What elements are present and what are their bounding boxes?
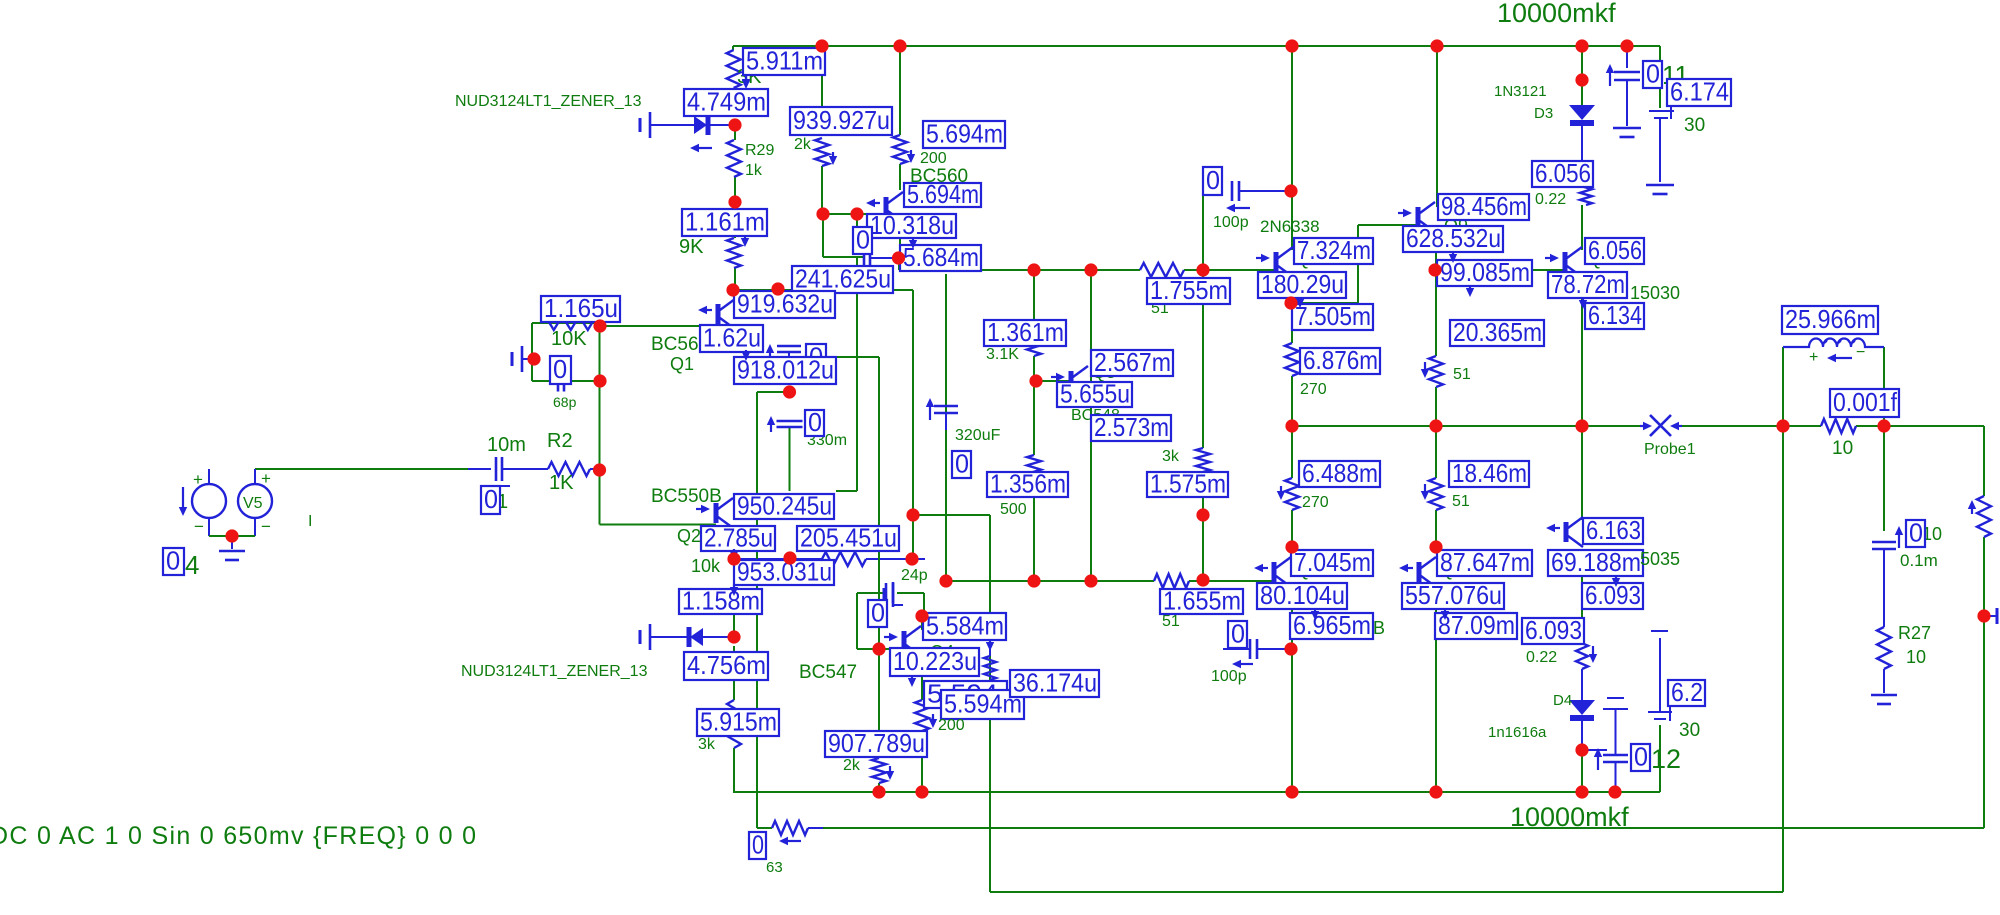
wire VAS output row y270: [899, 269, 1140, 271]
value box 6.093 right: [1582, 583, 1643, 609]
wire node913 to x990: [913, 514, 990, 516]
svg-text:0.1m: 0.1m: [1900, 551, 1938, 570]
svg-text:NUD3124LT1_ZENER_13: NUD3124LT1_ZENER_13: [455, 93, 642, 110]
svg-text:0: 0: [808, 407, 822, 437]
value box 5.694m upper: [923, 121, 1005, 148]
value box 1.161m: [682, 209, 767, 236]
wire battery 6.2 bottom to rail corner: [1659, 725, 1661, 792]
wire x857 Miller link vertical: [856, 258, 858, 491]
resistor R 10k feedback: [822, 552, 866, 566]
wire Q7 emitter node row: [1292, 302, 1358, 304]
battery V+ 30: [1649, 110, 1674, 112]
arrow D1 current: [699, 147, 712, 149]
svg-text:+: +: [261, 469, 271, 488]
pointer 5.911m: [745, 76, 747, 79]
value box 180.29u: [1258, 272, 1346, 298]
svg-text:10K: 10K: [551, 328, 587, 350]
svg-text:20.365m: 20.365m: [1453, 317, 1542, 347]
value box 0 follower: [806, 344, 826, 371]
node D2: [727, 630, 740, 643]
svg-text:5.911m: 5.911m: [746, 45, 823, 75]
svg-text:6.965m: 6.965m: [1293, 610, 1371, 640]
wire x1292 to bottom rail: [1291, 649, 1293, 792]
svg-text:1.158m: 1.158m: [682, 585, 760, 615]
wire Q1 collector node row: [733, 289, 913, 291]
svg-text:5.655u: 5.655u: [1060, 378, 1130, 408]
svg-text:1.165u: 1.165u: [544, 293, 618, 323]
transistor Q2 BC550B: [714, 503, 719, 523]
resistor R 10 output: [1821, 419, 1856, 433]
svg-text:2N6338: 2N6338: [1260, 217, 1320, 236]
svg-text:63: 63: [766, 859, 783, 876]
capacitor C11 polarized top: [1609, 73, 1611, 86]
svg-text:0: 0: [166, 545, 180, 575]
node FB 757: [783, 551, 796, 564]
svg-text:180.29u: 180.29u: [1261, 269, 1344, 299]
node Q1 emitter cap: [783, 385, 796, 398]
pointer 557.076u: [1444, 609, 1446, 611]
svg-text:98.456m: 98.456m: [1441, 191, 1527, 221]
node bottom rail x1436: [1429, 785, 1442, 798]
wire node to R9K: [734, 202, 736, 238]
svg-text:0: 0: [856, 224, 870, 254]
wire 0.22a to Q11: [1581, 205, 1583, 250]
node x1436 y547: [1429, 540, 1442, 553]
wire Q7 collector link vertical: [1357, 225, 1359, 303]
wire zobel cap to R27: [1883, 559, 1885, 627]
pin right edge: [1988, 615, 1997, 617]
svg-text:2.785u: 2.785u: [704, 522, 773, 552]
wire rail to Q10 region: [1581, 426, 1583, 520]
svg-text:15030: 15030: [1630, 283, 1680, 303]
value box 0 cap12: [1631, 744, 1650, 771]
node 10K right: [593, 319, 606, 332]
pointer 1.161m: [744, 236, 746, 238]
svg-text:69.188m: 69.188m: [1551, 547, 1641, 577]
svg-text:87.647m: 87.647m: [1440, 547, 1530, 577]
probe1 output: [1640, 425, 1643, 427]
svg-text:12: 12: [1651, 744, 1681, 774]
value box 0.001f: [1830, 389, 1899, 417]
zener diode D2: [639, 630, 642, 644]
wire Q7 base stub: [1258, 269, 1276, 271]
wire Q4 collector: [921, 616, 923, 630]
wire 2k bottom to node: [821, 166, 823, 214]
svg-text:1n1616a: 1n1616a: [1488, 724, 1547, 741]
wire C68p bottom: [532, 380, 600, 382]
wire top supply rail: [733, 45, 1660, 47]
voltage source I1 current arrow: [182, 487, 184, 507]
wire x1436 to R51a: [1435, 270, 1437, 356]
value box 99.085m: [1437, 260, 1532, 286]
voltage source V5 circle: [238, 484, 272, 518]
wire R10K top: [532, 322, 600, 324]
svg-text:270: 270: [1300, 381, 1327, 398]
wire x879 driver column: [878, 357, 880, 649]
node out rail x1884: [1877, 419, 1890, 432]
wire right edge vertical upper: [1983, 426, 1985, 496]
pointer 180.29u: [1299, 297, 1301, 299]
value box 0 68p: [550, 356, 571, 384]
svg-text:51: 51: [1162, 613, 1180, 630]
wire zener D2 node down: [733, 646, 735, 700]
capacitor C 330m: [770, 425, 772, 432]
wire x1884 zobel column: [1883, 426, 1885, 531]
svg-text:7.505m: 7.505m: [1295, 301, 1371, 331]
node Q9 emitter: [1428, 263, 1441, 276]
node top rail / x1437: [1430, 39, 1443, 52]
battery 6.2 plates: [1648, 711, 1672, 713]
resistor R 270 upper: [1285, 343, 1299, 376]
wire 0.22b to D4: [1581, 669, 1583, 702]
svg-text:10: 10: [1832, 438, 1853, 459]
wire x1203 column down: [1202, 270, 1204, 448]
svg-text:200: 200: [920, 150, 947, 167]
value box 6.056 lower: [1585, 238, 1644, 264]
svg-text:1.655m: 1.655m: [1163, 585, 1241, 615]
value box 18.46m: [1449, 461, 1529, 487]
wire R9K to Q1 collector node: [734, 268, 736, 290]
wire Q11 base row: [1532, 269, 1565, 271]
wire D4 node to bottom rail: [1581, 750, 1583, 792]
wire VAS node vertical x913: [912, 290, 914, 515]
wire Q1 emitter to follower cap node: [757, 391, 789, 393]
node FB right: [905, 552, 918, 565]
resistor R 3.1K: [1027, 330, 1041, 356]
wire x734 to zener D2: [733, 559, 735, 637]
pointer 918.012u: [745, 350, 747, 352]
node Q1 collector: [726, 283, 739, 296]
svg-text:10m: 10m: [487, 434, 526, 456]
wire Miller cap to VAS collector node: [871, 257, 898, 259]
wire x1292 R270b to node: [1291, 510, 1293, 547]
wire 2k to bottom rail: [878, 783, 880, 792]
value box 0 source: [163, 548, 184, 575]
pointer 2.785u: [733, 549, 735, 551]
value box 2.573m: [1091, 415, 1171, 441]
svg-text:6.093: 6.093: [1585, 580, 1641, 610]
wire R27 to ground: [1883, 669, 1885, 693]
value box 0 cap11: [1643, 61, 1662, 88]
node Q5 base: [1029, 374, 1042, 387]
svg-text:R29: R29: [745, 142, 774, 159]
svg-text:1.356m: 1.356m: [990, 468, 1066, 498]
wire x857 stub: [856, 214, 858, 252]
node bottom rail 2k: [872, 785, 885, 798]
wire x1034 column mid: [1033, 356, 1035, 455]
wire feedback row y559 right: [866, 558, 925, 560]
resistor R 200 upper: [893, 135, 907, 164]
svg-text:78.72m: 78.72m: [1551, 269, 1625, 299]
voltage source I1 leads: [208, 469, 210, 484]
value box 10.318u: [867, 214, 956, 238]
node x1292 y547: [1285, 540, 1298, 553]
capacitor C 0.1m zobel: [1898, 535, 1900, 548]
capacitor C 100p upper: [1231, 181, 1234, 201]
svg-text:100p: 100p: [1213, 214, 1249, 231]
resistor R 3k left: [727, 700, 741, 748]
wire Q2 collector link: [836, 490, 857, 492]
value box 5.594m: [941, 690, 1024, 719]
svg-text:4: 4: [185, 550, 199, 580]
svg-text:I: I: [308, 513, 312, 530]
value box 4.756m: [684, 652, 768, 680]
svg-text:0: 0: [752, 829, 764, 859]
wire top-right corner down to battery V+: [1659, 46, 1661, 108]
svg-text:6.876m: 6.876m: [1303, 345, 1378, 375]
resistor R 51a: [1429, 356, 1443, 387]
svg-text:+: +: [1809, 349, 1818, 366]
wire output rail right: [1856, 425, 1984, 427]
transistor Q7 2N6338: [1274, 252, 1279, 272]
value box 87.09m: [1435, 613, 1517, 639]
node bottom rail x1292: [1285, 785, 1298, 798]
pointer 5.584m: [989, 640, 991, 642]
wire x1436 to bottom rail: [1435, 649, 1437, 792]
resistor R 270 lower: [1285, 478, 1299, 510]
value box 0 24p: [868, 600, 887, 627]
svg-text:0.001f: 0.001f: [1833, 387, 1898, 417]
svg-text:557.076u: 557.076u: [1405, 580, 1502, 610]
wire node99 to Q11 row: [1436, 269, 1437, 271]
value box 10.223u: [890, 648, 979, 676]
wire input source to coupling cap: [255, 468, 468, 470]
wire x1034 column lower: [1033, 480, 1035, 581]
svg-text:907.789u: 907.789u: [828, 728, 925, 758]
ground R27: [1871, 694, 1897, 697]
value box 1.158m: [679, 589, 762, 614]
svg-text:R2: R2: [547, 430, 573, 452]
value box 0 miller: [853, 227, 872, 254]
svg-text:1N3121: 1N3121: [1494, 83, 1547, 100]
wire D4 to node: [1581, 716, 1583, 750]
node y270 x1034: [1027, 263, 1040, 276]
wire bottom rail: [733, 791, 1660, 793]
node top rail / 2k: [815, 39, 828, 52]
value box 1.165u: [541, 296, 620, 322]
node 2k bottom: [816, 207, 829, 220]
svg-text:1k: 1k: [745, 162, 763, 179]
wire x1292 main column: [1291, 46, 1293, 250]
arrow C100p lower: [1241, 663, 1253, 665]
wire output rail segment 2: [1682, 425, 1821, 427]
value box 953.031u: [734, 560, 834, 585]
wire R29 to node: [734, 177, 736, 202]
svg-text:4.749m: 4.749m: [687, 86, 766, 116]
wire x913 to 24p node: [912, 515, 914, 560]
svg-text:7.324m: 7.324m: [1297, 235, 1371, 265]
arrow C100p upper: [1235, 207, 1250, 209]
ground top battery: [1646, 184, 1674, 187]
value box 6.093 left: [1522, 618, 1584, 644]
svg-text:87.09m: 87.09m: [1438, 610, 1515, 640]
value box 5.584m: [923, 613, 1006, 640]
pointer 10.223u: [911, 676, 913, 678]
node out rail x1783: [1776, 419, 1789, 432]
value box 907.789u: [825, 731, 927, 757]
wire 24p loop left: [856, 593, 858, 649]
value box 2.785u: [701, 526, 775, 551]
value box 557.076u: [1402, 583, 1504, 609]
value box 6.488m: [1299, 461, 1380, 487]
node out rail x1582: [1575, 419, 1588, 432]
ground input source: [231, 536, 233, 549]
wire D4 cap node link: [1582, 749, 1607, 751]
resistor R right edge: [1977, 496, 1991, 537]
zener diode D1: [639, 118, 642, 132]
value box 950.245u: [734, 494, 834, 519]
svg-text:1.361m: 1.361m: [987, 317, 1064, 347]
value box 918.012u: [734, 357, 836, 384]
transistor Q5 BC548: [1069, 371, 1074, 391]
wire to Miller cap: [823, 256, 863, 258]
svg-text:7.045m: 7.045m: [1294, 547, 1371, 577]
wire Q2 emitter column: [733, 530, 735, 559]
wire x1783 below rail: [1782, 426, 1784, 892]
resistor R29 1k: [727, 140, 741, 177]
svg-text:25.966m: 25.966m: [1785, 304, 1876, 334]
node y581 x1091: [1084, 574, 1097, 587]
pointer 78.72m: [1582, 298, 1584, 300]
wire x823 down: [822, 214, 824, 257]
svg-text:2.573m: 2.573m: [1094, 412, 1169, 442]
wire line B bottom: [990, 891, 1783, 893]
capacitor C Miller: [863, 250, 866, 266]
value box 0 100p lower: [1228, 621, 1247, 648]
value box 5.684m: [900, 245, 981, 271]
value box 6.163: [1583, 518, 1643, 544]
node D3 anode: [1575, 73, 1588, 86]
svg-text:V5: V5: [243, 495, 263, 512]
wire 24p loop top: [857, 592, 886, 594]
wire 2k column top: [821, 46, 823, 131]
resistor R 51b: [1429, 478, 1443, 510]
node Q3 collector: [892, 251, 905, 264]
wire line A feedback bottom: [823, 827, 1984, 829]
value box 939.927u: [790, 107, 892, 135]
resistor R 51 lower row: [1154, 574, 1189, 588]
capacitor C out 10000mkf: [1597, 757, 1599, 770]
svg-text:2.567m: 2.567m: [1094, 347, 1171, 377]
wire 24p loop right: [897, 592, 924, 594]
wire Q4 emitter down: [921, 664, 923, 700]
wire x1203 column lower: [1202, 472, 1204, 581]
svg-text:51: 51: [1453, 366, 1471, 383]
wire R63 to line A: [808, 827, 824, 829]
svg-text:918.012u: 918.012u: [737, 354, 834, 384]
svg-text:1.755m: 1.755m: [1150, 275, 1228, 305]
value box 0 zobel: [1906, 520, 1925, 547]
wire Q5 base: [1036, 380, 1071, 382]
node bottom rail 200: [915, 785, 928, 798]
pointer 99.085m: [1469, 286, 1471, 288]
value box 6.134: [1585, 303, 1644, 329]
voltage source V5 leads: [254, 469, 256, 484]
wire x1203 cap column: [1202, 195, 1204, 270]
capacitor C follower 918u up-arrow: [769, 353, 771, 358]
value box 0 330m: [805, 410, 824, 436]
wire x1436 below QD2: [1435, 596, 1437, 649]
wire Q10 to 0.22b: [1581, 555, 1583, 638]
value box 5.694m lower: [904, 183, 981, 207]
wire x900 to y270 row: [898, 258, 900, 270]
svg-text:2k: 2k: [794, 136, 812, 153]
svg-text:5.584m: 5.584m: [926, 610, 1004, 640]
svg-text:B: B: [1373, 618, 1385, 638]
node y581 x1034: [1027, 574, 1040, 587]
node 68p right: [593, 374, 606, 387]
value box 1.575m: [1147, 472, 1228, 497]
value box 6.056 upper: [1532, 161, 1593, 187]
value box 0 input: [481, 486, 500, 514]
transistor Q6 lower left: [1272, 562, 1277, 582]
wire right edge vertical: [1983, 616, 1985, 828]
wire R10K left vertical: [531, 323, 533, 381]
wire x1292 below Q7: [1291, 285, 1293, 343]
resistor R 0.22 lower: [1576, 638, 1588, 669]
svg-text:6.163: 6.163: [1586, 515, 1641, 545]
node out rail x1292: [1285, 419, 1298, 432]
svg-text:0: 0: [871, 597, 885, 627]
voltage source I1 circle: [192, 484, 226, 518]
transistor Q9: [1416, 207, 1421, 227]
resistor R 3k right: [1196, 448, 1210, 472]
svg-text:3k: 3k: [698, 736, 716, 753]
node Q4 base: [872, 642, 885, 655]
value box 6.876m: [1300, 348, 1380, 374]
value box 1.356m: [987, 472, 1068, 497]
svg-text:10000mkf: 10000mkf: [1497, 0, 1616, 28]
svg-text:BC550B: BC550B: [651, 486, 722, 507]
wire x757 emitter chain: [756, 491, 758, 828]
node bias probe: [527, 352, 540, 365]
resistor R 500: [1027, 455, 1041, 480]
node top rail / 200: [893, 39, 906, 52]
svg-text:5.684m: 5.684m: [903, 242, 979, 272]
svg-text:628.532u: 628.532u: [1406, 223, 1501, 253]
svg-text:10k: 10k: [691, 556, 721, 576]
value box 1.655m: [1160, 589, 1243, 614]
output cap top plate: [1603, 708, 1628, 710]
node 100p top: [1284, 184, 1297, 197]
resistor R 2k upper: [815, 138, 829, 166]
wire output rail: [1292, 425, 1640, 427]
svg-text:0: 0: [484, 484, 498, 514]
svg-text:0: 0: [1646, 58, 1660, 88]
resistor R2 1K: [548, 462, 590, 476]
value box 6.965m: [1290, 613, 1373, 639]
pointer 953.031u: [733, 585, 735, 587]
svg-text:6.093: 6.093: [1525, 615, 1582, 645]
svg-text:5.915m: 5.915m: [700, 706, 777, 736]
svg-text:1K: 1K: [549, 472, 574, 494]
node y270 x1091: [1084, 263, 1097, 276]
wire lower bias row y581 right: [1189, 580, 1274, 582]
wire x879 label row: [835, 356, 879, 358]
svg-text:10: 10: [1906, 647, 1926, 667]
svg-text:9K: 9K: [679, 236, 704, 258]
wire top battery column: [1659, 118, 1661, 182]
value box 919.632u: [734, 291, 835, 318]
svg-text:−: −: [261, 517, 271, 536]
diode D3 1N3121: [1569, 105, 1595, 120]
svg-text:BC547: BC547: [799, 662, 857, 683]
wire 200 to Q3: [899, 164, 901, 190]
pointer 69.188m: [1615, 576, 1617, 578]
node Q7 emitter: [1284, 296, 1297, 309]
wire x1436 Q9 emitter down: [1435, 241, 1437, 270]
wire x879 to 2k: [878, 649, 880, 758]
